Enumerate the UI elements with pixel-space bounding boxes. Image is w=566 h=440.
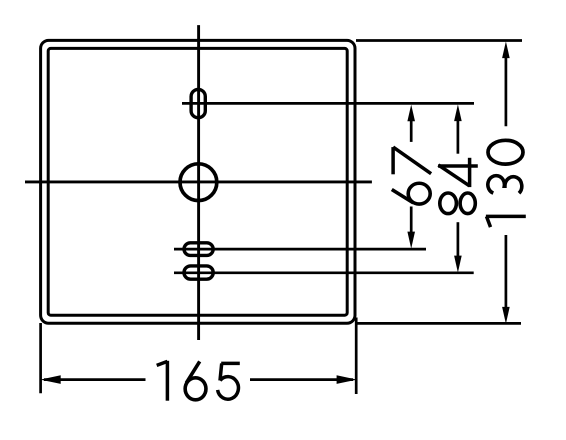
label 84 (rotated)	[438, 158, 478, 214]
lower slot	[184, 266, 213, 279]
leader line from top slot	[182, 102, 474, 105]
dimension 84 line upper	[457, 118, 460, 154]
label 165	[157, 361, 240, 401]
arrowhead left	[40, 375, 61, 384]
fixture body outer outline	[41, 40, 355, 323]
leader line from lower slot	[174, 271, 474, 274]
middle slot	[184, 243, 213, 256]
leader line from middle slot	[174, 248, 426, 251]
arrowhead 67 up	[407, 105, 415, 122]
dimension 130 line upper	[505, 55, 508, 126]
arrowhead 130 down	[502, 307, 510, 324]
top slot	[191, 89, 205, 117]
label 67 (rotated)	[392, 147, 431, 204]
arrowhead 84 up	[454, 104, 462, 121]
dimension 67 line lower	[410, 207, 413, 236]
arrowhead 130 up	[502, 41, 510, 58]
horizontal centerline	[25, 180, 372, 183]
bottom edge extension line	[356, 322, 521, 325]
fixture body inner outline	[48, 48, 347, 315]
center circle knockout	[180, 164, 217, 201]
dimension 165 line right segment	[250, 378, 353, 381]
vertical centerline	[197, 25, 200, 340]
dimension 130 line lower	[505, 235, 508, 309]
dimension 165 line left segment	[44, 378, 146, 381]
top edge extension line	[356, 39, 522, 42]
arrowhead right	[337, 375, 357, 384]
arrowhead 67 down	[407, 232, 415, 249]
right extension line down	[355, 318, 358, 395]
dimension 67 line upper	[410, 118, 413, 142]
dimension 84 line lower	[457, 222, 460, 258]
left extension line down	[39, 323, 42, 393]
label 130 (rotated)	[486, 140, 526, 227]
arrowhead 84 down	[454, 256, 462, 273]
